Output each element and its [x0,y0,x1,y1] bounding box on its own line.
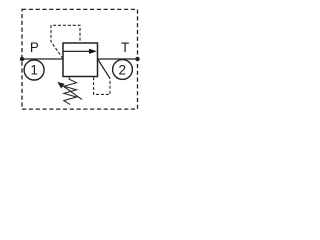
svg-text:1: 1 [30,63,38,78]
envelope (outer dashed enclosure) [22,9,138,109]
drain line dashed (from valve bottom down, right, up) [94,77,110,94]
spring (zigzag below valve) [64,77,77,105]
drain diagonal (solid, from T junction to dashed drain) [98,59,110,79]
svg-text:T: T [121,40,129,55]
svg-text:P: P [30,40,39,55]
wire T line [98,58,138,60]
node 2 (port circle) [113,60,133,80]
wire P line [22,58,63,60]
junction dot P [20,57,24,61]
valve body U1 (square) [63,43,98,77]
node 1 (port circle) [24,60,44,80]
flow arrow inside valve [64,49,97,54]
svg-text:2: 2 [119,62,127,77]
junction dot T [135,57,139,61]
spring adjustment arrow [57,82,82,100]
pilot line (dashed, from P junction up and over to valve top) [51,25,80,58]
